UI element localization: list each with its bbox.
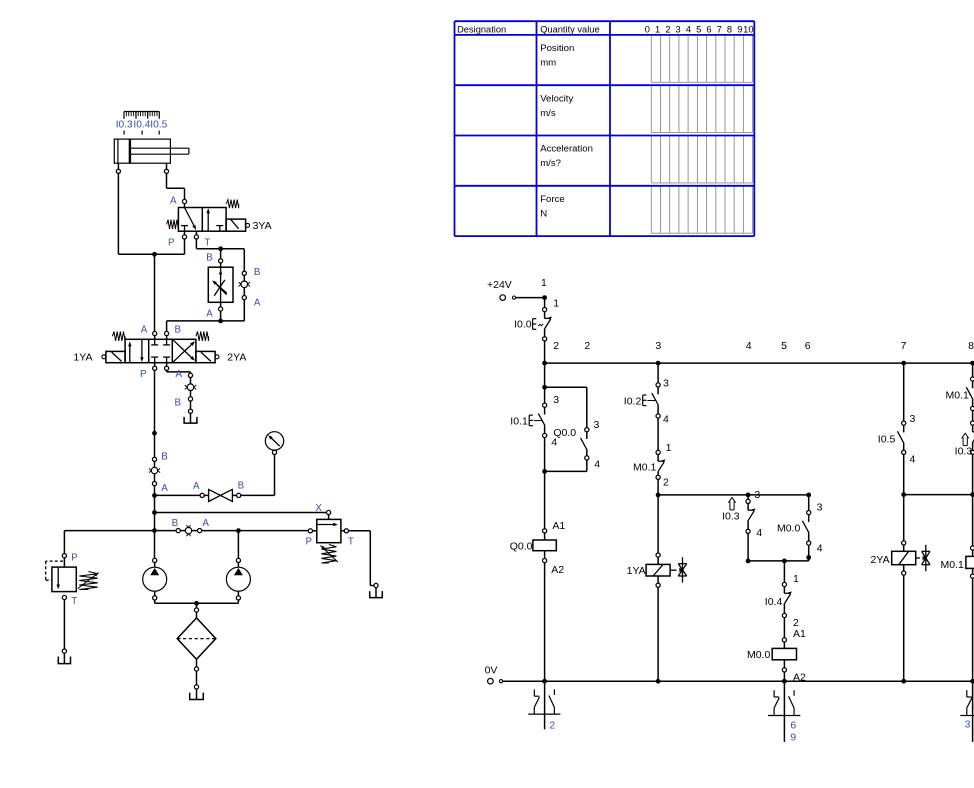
svg-text:A: A xyxy=(254,297,261,308)
svg-text:I0.3: I0.3 xyxy=(955,446,973,458)
node rung 8 link xyxy=(901,454,972,540)
svg-text:M0.0: M0.0 xyxy=(777,523,801,535)
svg-text:4: 4 xyxy=(756,527,762,539)
contact M0.0 (make) xyxy=(777,510,823,554)
valve 1YA/2YA (4/3-way solenoid valve) xyxy=(73,324,246,380)
svg-text:I0.4: I0.4 xyxy=(133,120,150,131)
pump 2 xyxy=(197,528,251,603)
svg-text:2: 2 xyxy=(663,476,669,488)
node P-junction xyxy=(152,252,157,331)
svg-text:B: B xyxy=(238,480,245,491)
svg-text:B: B xyxy=(175,324,182,335)
svg-text:A2: A2 xyxy=(793,672,806,684)
svg-text:7: 7 xyxy=(717,25,722,35)
svg-text:1: 1 xyxy=(553,297,559,309)
node above throttle valve xyxy=(218,246,244,271)
contact cross-reference Q0.0 rung 2 xyxy=(528,681,560,732)
wire below I0.0 xyxy=(545,340,560,363)
throttle valve (adjustable, one-way bypass) port B xyxy=(206,253,233,321)
svg-text:0: 0 xyxy=(645,25,650,35)
0V supply terminal xyxy=(485,664,974,684)
svg-text:4: 4 xyxy=(817,542,823,554)
svg-text:m/s?: m/s? xyxy=(540,158,561,169)
wire M0.1 to I0.3 xyxy=(972,411,974,421)
svg-text:4: 4 xyxy=(594,459,600,471)
wire rung 2YA from bus xyxy=(904,363,916,425)
svg-text:Quantity value: Quantity value xyxy=(540,24,599,34)
svg-text:+24V: +24V xyxy=(487,279,512,291)
contact I0.5 (make) xyxy=(878,421,916,465)
svg-text:2: 2 xyxy=(665,25,670,35)
svg-text:B: B xyxy=(174,398,181,409)
svg-text:T: T xyxy=(204,237,210,248)
svg-text:M0.1: M0.1 xyxy=(946,390,970,402)
relief valve (left) with pilot xyxy=(46,553,99,664)
svg-text:mm: mm xyxy=(540,58,556,69)
svg-text:X: X xyxy=(315,503,322,514)
svg-text:4: 4 xyxy=(551,437,557,449)
svg-text:3: 3 xyxy=(676,25,681,35)
svg-text:Force: Force xyxy=(540,194,565,205)
svg-text:1: 1 xyxy=(655,25,660,35)
svg-text:1: 1 xyxy=(666,442,672,454)
svg-text:P: P xyxy=(71,553,78,564)
shutoff valve A/B with gauge branch xyxy=(193,455,275,502)
svg-text:A: A xyxy=(202,518,209,529)
wire rung M0.1 from bus xyxy=(972,363,974,377)
svg-text:3: 3 xyxy=(965,720,971,731)
svg-text:3: 3 xyxy=(910,413,916,425)
svg-text:8: 8 xyxy=(968,340,974,352)
wire 3YA port T to throttle xyxy=(196,239,220,249)
node below I0.1 xyxy=(542,437,557,529)
contact I0.4 (break) xyxy=(765,582,799,629)
wire sequence valve T to tank xyxy=(349,531,383,598)
svg-text:3: 3 xyxy=(754,489,760,501)
svg-text:A: A xyxy=(161,483,168,494)
svg-text:A: A xyxy=(170,195,177,206)
svg-text:A: A xyxy=(176,369,183,380)
svg-text:3: 3 xyxy=(594,419,600,431)
contact Q0.0 (make, parallel branch) xyxy=(545,419,601,472)
distance ruler with sensor labels I0.3 I0.4 I0.5 xyxy=(116,112,168,135)
svg-text:I0.4: I0.4 xyxy=(765,596,783,608)
+24V supply terminal xyxy=(487,277,547,300)
svg-text:3: 3 xyxy=(663,377,669,389)
wire cylinder right port to valve 3YA port A xyxy=(167,173,185,199)
node subnet rung 3 xyxy=(656,479,809,553)
solenoid coil 2YA xyxy=(871,541,930,681)
svg-text:2: 2 xyxy=(549,721,555,732)
svg-text:4: 4 xyxy=(663,414,669,426)
svg-text:M0.0: M0.0 xyxy=(747,649,771,661)
contact M0.1 (make) xyxy=(946,377,974,411)
svg-text:A1: A1 xyxy=(793,628,806,640)
node rung M0.0 contact xyxy=(806,493,822,514)
node below throttle xyxy=(167,319,223,332)
state-diagram table xyxy=(455,21,755,236)
svg-text:2: 2 xyxy=(553,340,559,352)
svg-text:M0.1: M0.1 xyxy=(941,559,965,571)
wire rung 1YA from bus xyxy=(658,363,669,389)
svg-text:T: T xyxy=(71,596,77,607)
contact I0.3 (break, limit switch actuated) xyxy=(722,498,762,540)
node rung 8 to coil M0.1 xyxy=(970,454,974,546)
svg-text:3: 3 xyxy=(655,340,661,352)
drain check valve with tank xyxy=(174,373,196,423)
wire I0.2 to M0.1 xyxy=(658,418,672,454)
svg-text:I0.5: I0.5 xyxy=(150,120,167,131)
svg-text:I0.3: I0.3 xyxy=(722,511,740,523)
svg-text:A2: A2 xyxy=(551,564,564,576)
svg-text:A1: A1 xyxy=(552,520,565,532)
svg-text:2YA: 2YA xyxy=(871,554,890,566)
svg-text:N: N xyxy=(540,208,547,219)
svg-text:4: 4 xyxy=(910,453,916,465)
svg-text:M0.1: M0.1 xyxy=(633,462,657,474)
svg-text:P: P xyxy=(168,237,175,248)
node rail 2YA xyxy=(901,679,906,684)
svg-text:B: B xyxy=(172,518,179,529)
node branch to Q0.0 contact xyxy=(542,363,587,428)
svg-text:4: 4 xyxy=(686,25,691,35)
node rail 1YA xyxy=(656,679,661,684)
contact I0.1 (make, pushbutton) xyxy=(510,403,546,438)
svg-text:6: 6 xyxy=(706,25,711,35)
relay coil M0.1 xyxy=(941,546,974,681)
node to sequence valve pilot X xyxy=(152,510,326,515)
tank below filter xyxy=(190,671,204,699)
svg-text:P: P xyxy=(305,536,312,547)
svg-text:9: 9 xyxy=(790,732,796,743)
svg-text:B: B xyxy=(161,452,168,463)
svg-text:3: 3 xyxy=(817,502,823,514)
svg-text:I0.1: I0.1 xyxy=(510,415,528,427)
svg-text:2: 2 xyxy=(584,340,590,352)
svg-text:10: 10 xyxy=(743,25,753,35)
svg-text:9: 9 xyxy=(737,25,742,35)
contact M0.1 (break) xyxy=(633,450,669,488)
coupling B/A on pump line xyxy=(172,518,309,536)
svg-text:1YA: 1YA xyxy=(627,565,646,577)
wire main pressure line xyxy=(152,370,157,457)
svg-text:6: 6 xyxy=(790,721,796,732)
node rung1 top xyxy=(542,295,559,309)
svg-text:T: T xyxy=(348,536,354,547)
svg-text:P: P xyxy=(140,369,147,380)
svg-text:I0.3: I0.3 xyxy=(116,120,133,131)
node rail M0.1 xyxy=(970,679,974,684)
svg-text:5: 5 xyxy=(696,25,701,35)
svg-text:Designation: Designation xyxy=(457,24,506,34)
contact I0.2 (make, pushbutton) xyxy=(624,383,669,426)
svg-text:Q0.0: Q0.0 xyxy=(510,540,533,552)
node rung I0.3 xyxy=(746,489,761,501)
wire valve T to drain check valve xyxy=(167,369,191,380)
contact cross-reference M0.1 rung 3 xyxy=(960,681,974,742)
wire 3YA port P down to node xyxy=(184,239,186,254)
svg-text:1YA: 1YA xyxy=(73,352,92,364)
svg-text:7: 7 xyxy=(900,340,906,352)
svg-text:A: A xyxy=(141,324,148,335)
wire M0.0 contact to subnet xyxy=(806,545,811,561)
svg-text:1: 1 xyxy=(793,573,799,585)
node coil branch M0.0 xyxy=(782,559,799,585)
contact I0.3 (break, limit switch, rung 8) xyxy=(955,421,974,458)
pump 1 xyxy=(143,558,197,603)
valve 3YA (3/2-way solenoid valve) xyxy=(167,195,272,248)
svg-text:I0.5: I0.5 xyxy=(878,434,896,446)
svg-text:5: 5 xyxy=(781,340,787,352)
suction filter xyxy=(177,601,216,671)
sequence valve (right) with pilot X xyxy=(305,503,353,563)
svg-text:0V: 0V xyxy=(485,664,498,676)
wire cylinder left port to node P-line xyxy=(118,173,184,254)
svg-text:2YA: 2YA xyxy=(227,352,246,364)
svg-text:1: 1 xyxy=(541,277,547,289)
node main pump line xyxy=(64,498,176,559)
node rail Q0.0 xyxy=(542,679,547,684)
coupling B/A on pressure line xyxy=(149,452,168,496)
svg-text:Acceleration: Acceleration xyxy=(540,144,593,155)
svg-text:A: A xyxy=(193,481,200,492)
svg-text:B: B xyxy=(206,253,213,264)
relay coil Q0.0 xyxy=(510,520,566,681)
relay coil M0.0 xyxy=(747,618,806,684)
svg-text:m/s: m/s xyxy=(540,108,556,119)
contact cross-reference M0.0 rungs 6,9 xyxy=(768,681,800,743)
node to shutoff valve xyxy=(152,493,200,498)
wire I0.3 down to subnet node xyxy=(746,533,809,563)
svg-text:Velocity: Velocity xyxy=(540,93,573,104)
bus +24V distribution xyxy=(542,340,974,366)
svg-text:6: 6 xyxy=(805,340,811,352)
pressure gauge xyxy=(265,432,283,455)
contact I0.0 (break, pushbutton) xyxy=(514,308,552,341)
svg-text:A: A xyxy=(206,309,213,320)
svg-text:3YA: 3YA xyxy=(253,220,272,232)
svg-text:Position: Position xyxy=(540,43,574,54)
svg-text:I0.2: I0.2 xyxy=(624,396,642,408)
svg-text:8: 8 xyxy=(727,25,732,35)
svg-text:3: 3 xyxy=(553,394,559,406)
svg-text:4: 4 xyxy=(746,340,752,352)
cylinder 1A (double-acting) xyxy=(114,139,189,173)
svg-text:I0.0: I0.0 xyxy=(514,318,532,330)
svg-text:B: B xyxy=(254,267,261,278)
check valve (bypass) with ports B/A xyxy=(221,267,261,321)
wire to I0.1 xyxy=(545,389,560,406)
node rail M0.0 xyxy=(782,679,787,684)
solenoid coil 1YA xyxy=(627,553,687,681)
